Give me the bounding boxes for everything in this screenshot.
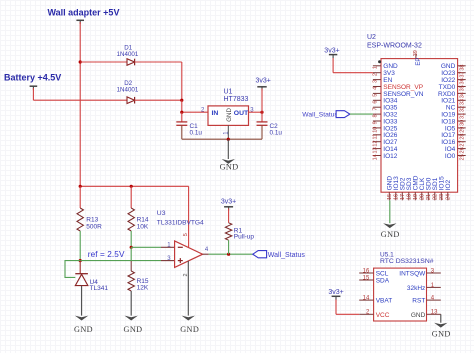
supply pin +5V wall xyxy=(76,19,84,21)
svg-text:13: 13 xyxy=(372,147,378,153)
svg-text:15: 15 xyxy=(363,275,370,281)
svg-text:26: 26 xyxy=(459,147,465,153)
svg-text:36: 36 xyxy=(459,78,465,84)
svg-text:19: 19 xyxy=(413,194,419,200)
svg-text:ESP-WROOM-32: ESP-WROOM-32 xyxy=(367,43,422,50)
svg-text:1: 1 xyxy=(372,66,378,69)
junction wall/D1 xyxy=(79,60,82,63)
svg-text:34: 34 xyxy=(459,92,465,98)
wire R14 to divider xyxy=(130,231,132,247)
svg-text:4: 4 xyxy=(372,87,378,90)
svg-text:1N4001: 1N4001 xyxy=(117,86,139,93)
pin 1 stub xyxy=(227,125,229,139)
svg-text:3v3+: 3v3+ xyxy=(256,78,271,85)
svg-text:31: 31 xyxy=(459,113,465,119)
diode D1 xyxy=(127,59,135,66)
rtc U5 body xyxy=(374,268,427,321)
svg-text:VBAT: VBAT xyxy=(376,298,393,305)
wire Wall_Status ESP xyxy=(350,113,373,115)
ground U3 xyxy=(180,261,199,334)
svg-text:Wall_Status: Wall_Status xyxy=(302,111,338,118)
pin names U5 left xyxy=(376,271,393,319)
svg-text:12K: 12K xyxy=(137,284,149,291)
ground U1 xyxy=(220,139,239,171)
pin 39 EP xyxy=(413,50,422,65)
wire R1 to output xyxy=(228,240,230,254)
junction rail xyxy=(227,138,230,141)
svg-text:EP: EP xyxy=(416,58,422,66)
svg-text:10K: 10K xyxy=(137,223,149,230)
svg-text:GND: GND xyxy=(124,325,143,334)
wire D1 cathode xyxy=(135,61,182,63)
wire ref to pin3 xyxy=(80,260,161,262)
svg-text:38: 38 xyxy=(459,65,465,71)
capacitor C1 xyxy=(176,112,187,125)
svg-text:39: 39 xyxy=(413,50,419,56)
wire TL341 wrap xyxy=(65,261,80,278)
svg-text:6: 6 xyxy=(372,101,378,104)
junction R14 top xyxy=(130,185,133,188)
svg-text:17: 17 xyxy=(400,194,406,200)
supply 3v3+ RTC xyxy=(328,289,359,314)
pin names U2 bottom xyxy=(387,175,453,190)
svg-text:32: 32 xyxy=(459,106,465,112)
svg-text:0.1u: 0.1u xyxy=(270,130,283,137)
svg-text:ref = 2.5V: ref = 2.5V xyxy=(88,250,125,259)
resistor R1 xyxy=(225,223,231,240)
ground ESP xyxy=(381,200,400,239)
pin stubs U2 bottom xyxy=(389,192,448,200)
pin numbers U2 right xyxy=(459,65,465,161)
svg-text:23: 23 xyxy=(439,194,445,200)
op-amp U3 xyxy=(175,241,203,267)
supply 3v3+ pullup xyxy=(221,199,236,223)
svg-text:3: 3 xyxy=(372,80,378,83)
svg-text:GND: GND xyxy=(432,330,451,339)
svg-text:IO0: IO0 xyxy=(445,153,456,160)
stub pin1 xyxy=(161,246,175,248)
pin stubs U2 right xyxy=(458,66,466,156)
svg-text:32kHz: 32kHz xyxy=(407,285,425,292)
regulator U1 body xyxy=(208,106,249,126)
svg-text:RTC DS3231SN#: RTC DS3231SN# xyxy=(380,258,434,265)
svg-text:Pull-up: Pull-up xyxy=(234,234,255,241)
svg-text:20: 20 xyxy=(420,194,426,200)
svg-text:8: 8 xyxy=(372,114,378,117)
junction D2/reg xyxy=(180,99,183,102)
junction divider xyxy=(130,246,133,249)
svg-text:GND: GND xyxy=(411,312,426,319)
svg-text:10: 10 xyxy=(372,127,378,133)
wire D2 cathode xyxy=(135,99,182,101)
svg-text:5: 5 xyxy=(183,233,189,236)
junction output xyxy=(227,253,230,256)
mcu U2 body xyxy=(381,59,458,193)
svg-text:Battery +4.5V: Battery +4.5V xyxy=(4,73,61,83)
wire OUT xyxy=(249,111,263,113)
svg-text:3v3+: 3v3+ xyxy=(328,289,343,296)
svg-text:OUT: OUT xyxy=(234,110,249,117)
svg-text:IN: IN xyxy=(212,110,219,117)
svg-text:U1: U1 xyxy=(224,89,233,96)
pin names U5 right xyxy=(399,271,426,319)
svg-text:0.1u: 0.1u xyxy=(190,130,203,137)
svg-text:14: 14 xyxy=(372,154,378,160)
pin numbers U5 right xyxy=(431,268,438,315)
svg-text:11: 11 xyxy=(372,134,378,140)
resistor R13 xyxy=(77,186,83,231)
svg-text:16: 16 xyxy=(363,268,370,274)
pin stubs U2 left xyxy=(373,66,381,156)
wire D1 anode xyxy=(80,61,127,63)
svg-text:U3: U3 xyxy=(157,210,166,217)
svg-text:37: 37 xyxy=(459,71,465,77)
svg-text:22: 22 xyxy=(433,194,439,200)
svg-text:SCL: SCL xyxy=(376,271,389,278)
resistor R14 xyxy=(128,186,134,231)
supply 3v3+ ESP xyxy=(324,48,373,73)
svg-text:4: 4 xyxy=(205,247,209,253)
svg-text:9: 9 xyxy=(372,121,378,124)
svg-text:16: 16 xyxy=(394,194,400,200)
svg-text:2: 2 xyxy=(366,310,370,316)
svg-text:27: 27 xyxy=(459,140,465,146)
svg-text:GND: GND xyxy=(226,108,233,122)
svg-text:IO2: IO2 xyxy=(445,179,452,190)
svg-text:GND: GND xyxy=(381,230,400,239)
net flag Wall_Status out xyxy=(253,251,267,258)
svg-text:35: 35 xyxy=(459,85,465,91)
pin names U2 right xyxy=(438,63,456,160)
wire divider to R15 xyxy=(130,247,132,271)
polarity mark U2 xyxy=(378,60,381,63)
svg-text:14: 14 xyxy=(363,296,370,302)
svg-text:HT7833: HT7833 xyxy=(224,96,249,103)
gnd rail under U1 xyxy=(182,125,262,139)
svg-text:33: 33 xyxy=(459,99,465,105)
svg-text:IO12: IO12 xyxy=(383,153,397,160)
svg-text:2: 2 xyxy=(372,73,378,76)
wire to reg IN xyxy=(182,100,208,112)
svg-text:GND: GND xyxy=(74,325,93,334)
svg-text:15: 15 xyxy=(387,194,393,200)
svg-text:12: 12 xyxy=(372,140,378,146)
pin numbers U2 left xyxy=(372,66,378,160)
vref U4 TL341 xyxy=(75,261,88,286)
junction OUT xyxy=(260,111,263,114)
wire D1-D2 vertical xyxy=(181,62,183,100)
svg-text:VCC: VCC xyxy=(376,312,390,319)
wire wall +5V vertical xyxy=(79,22,81,186)
svg-text:24: 24 xyxy=(446,194,452,200)
ground R15 xyxy=(124,291,143,334)
wire R13 to ref xyxy=(79,231,81,261)
ground RTC xyxy=(432,314,451,338)
junction C1 tap xyxy=(180,111,183,114)
wire output xyxy=(209,253,253,255)
pin names U2 left xyxy=(383,63,423,160)
stub pin4 xyxy=(203,253,209,255)
svg-text:500R: 500R xyxy=(86,223,102,230)
pin stubs U5 left xyxy=(359,273,373,314)
diode D2 xyxy=(127,97,135,104)
svg-text:SDA: SDA xyxy=(376,278,390,285)
junction R13 top xyxy=(79,185,82,188)
svg-text:25: 25 xyxy=(459,154,465,160)
wire battery xyxy=(33,88,127,100)
junction ref node xyxy=(79,259,82,262)
svg-text:TL331IDBVTG4: TL331IDBVTG4 xyxy=(157,220,204,227)
supply pin battery xyxy=(30,85,38,87)
capacitor C2 xyxy=(257,112,268,125)
svg-text:28: 28 xyxy=(459,134,465,140)
svg-text:Wall adapter +5V: Wall adapter +5V xyxy=(48,8,120,18)
svg-text:INTSQW: INTSQW xyxy=(399,271,426,278)
svg-text:RST: RST xyxy=(412,298,425,305)
svg-text:Wall_Status: Wall_Status xyxy=(268,252,306,259)
svg-text:7: 7 xyxy=(372,107,378,110)
svg-text:5: 5 xyxy=(372,94,378,97)
svg-text:29: 29 xyxy=(459,127,465,133)
svg-text:18: 18 xyxy=(407,194,413,200)
wire divider to pin1 xyxy=(131,246,161,248)
pin numbers U2 bottom xyxy=(387,194,452,200)
svg-text:1N4001: 1N4001 xyxy=(117,51,139,58)
wire +5V rail xyxy=(80,186,188,247)
supply 3v3+ regulator out xyxy=(256,78,271,113)
svg-text:U2: U2 xyxy=(367,34,376,41)
stub pin3 xyxy=(161,260,175,262)
svg-text:21: 21 xyxy=(426,194,432,200)
svg-text:30: 30 xyxy=(459,120,465,126)
svg-text:GND: GND xyxy=(220,163,239,172)
pin numbers U5 left xyxy=(363,268,370,315)
svg-text:TL341: TL341 xyxy=(90,285,109,292)
ground U4 xyxy=(74,286,93,334)
svg-text:3v3+: 3v3+ xyxy=(324,48,339,55)
pin stubs U5 right xyxy=(427,273,441,314)
resistor R15 xyxy=(128,271,134,291)
svg-text:13: 13 xyxy=(431,310,438,316)
svg-text:3v3+: 3v3+ xyxy=(221,199,236,206)
net flag Wall_Status ESP xyxy=(336,111,350,118)
svg-text:GND: GND xyxy=(180,325,199,334)
